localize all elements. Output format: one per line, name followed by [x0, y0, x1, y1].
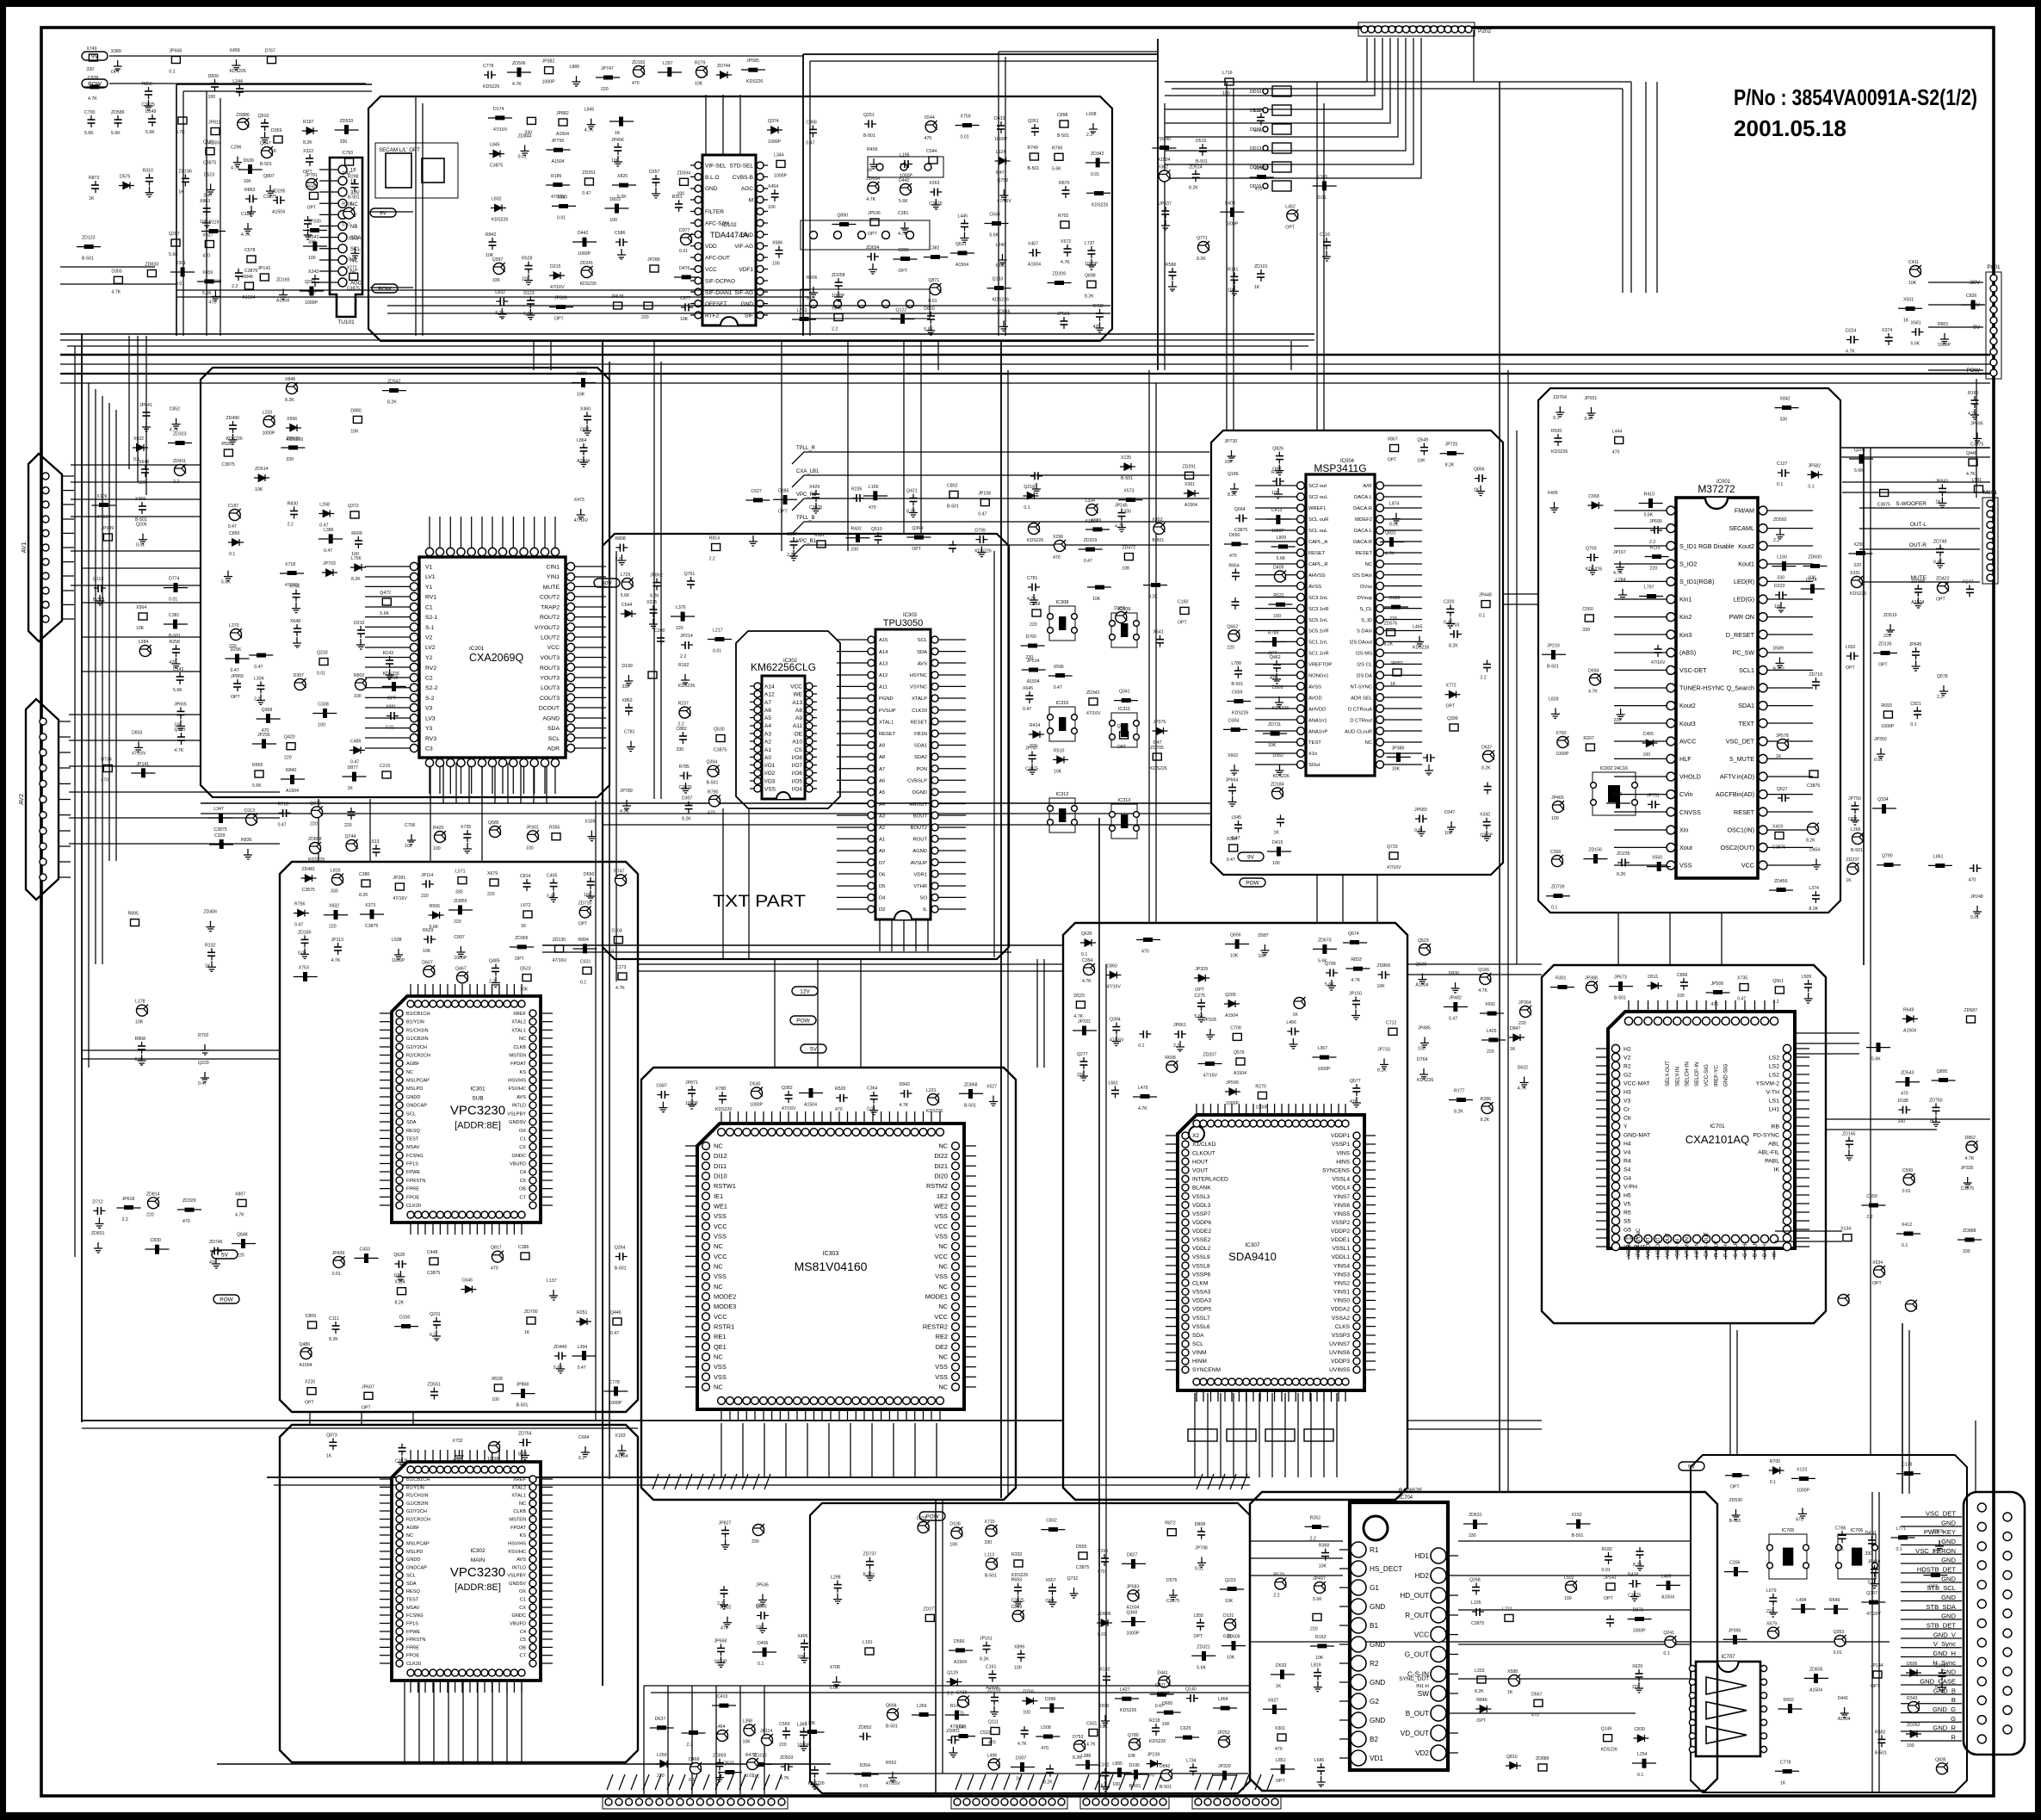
- svg-text:SYNCENM: SYNCENM: [1192, 1367, 1221, 1373]
- wire: [542, 951, 1011, 953]
- svg-text:AHVDD: AHVDD: [1308, 707, 1326, 712]
- wire: [82, 1427, 638, 1429]
- svg-text:D149: D149: [145, 109, 157, 115]
- svg-text:VSSA3: VSSA3: [1192, 1290, 1211, 1296]
- svg-text:Q205: Q205: [136, 523, 147, 528]
- svg-text:HP-IN: HP-IN: [1694, 1242, 1700, 1257]
- svg-text:Xout: Xout: [1679, 844, 1692, 851]
- svg-text:R160: R160: [1968, 391, 1979, 396]
- svg-text:FPRE: FPRE: [406, 1187, 419, 1192]
- svg-text:FPRSTN: FPRSTN: [406, 1179, 425, 1184]
- connector P801: [1986, 264, 2001, 379]
- svg-text:C3875: C3875: [263, 195, 276, 200]
- wire: [667, 1686, 669, 1794]
- svg-text:Xin: Xin: [1679, 826, 1688, 833]
- svg-text:JP141: JP141: [136, 762, 149, 767]
- svg-text:JP536: JP536: [868, 211, 881, 216]
- svg-text:CLKB: CLKB: [513, 1509, 526, 1514]
- svg-text:X419: X419: [1772, 825, 1783, 830]
- net tag 12V: [792, 987, 818, 995]
- svg-text:1000P: 1000P: [768, 139, 782, 145]
- svg-text:XREF: XREF: [513, 1477, 527, 1483]
- svg-text:SYNC_OUT: SYNC_OUT: [1399, 1676, 1429, 1682]
- svg-text:NC: NC: [938, 1303, 948, 1310]
- svg-text:L386: L386: [324, 528, 334, 533]
- wire: [722, 808, 724, 959]
- wire drops VPC3230 main to headers: [405, 1681, 522, 1764]
- wire: [609, 362, 610, 1479]
- svg-text:Q420: Q420: [284, 735, 295, 740]
- svg-text:JP456: JP456: [611, 138, 624, 143]
- svg-text:D7: D7: [879, 861, 885, 866]
- svg-text:8.2K: 8.2K: [329, 1337, 338, 1342]
- svg-text:D223: D223: [1774, 584, 1785, 589]
- svg-text:I2S CL: I2S CL: [1357, 663, 1372, 668]
- svg-text:C489: C489: [350, 739, 362, 744]
- section box: SDA9410 scan: [1063, 923, 1407, 1500]
- component cluster (R/C/Q/D + labels): [483, 59, 765, 92]
- svg-text:330: 330: [1123, 510, 1131, 515]
- svg-text:KDS226: KDS226: [226, 436, 243, 442]
- svg-text:A4: A4: [764, 723, 771, 729]
- svg-text:DI11: DI11: [714, 1162, 727, 1170]
- svg-text:AVSUP: AVSUP: [911, 861, 927, 866]
- wire: [69, 791, 280, 793]
- svg-text:A1504: A1504: [552, 159, 565, 164]
- net tag POW: [82, 79, 108, 88]
- connector pin header: [1080, 1795, 1169, 1809]
- svg-text:GND: GND: [1370, 1603, 1385, 1611]
- svg-text:KDS226: KDS226: [1092, 202, 1108, 207]
- svg-text:L756: L756: [351, 556, 362, 561]
- svg-text:C380: C380: [359, 872, 370, 877]
- svg-text:C368: C368: [806, 120, 817, 125]
- component cluster (R/C/Q/D + labels): [302, 119, 360, 295]
- svg-text:NC: NC: [714, 1263, 723, 1271]
- svg-text:JP747: JP747: [1025, 746, 1038, 751]
- svg-text:L845: L845: [490, 143, 500, 148]
- svg-text:L233: L233: [263, 411, 273, 416]
- svg-text:X2: X2: [1192, 1133, 1199, 1139]
- svg-text:8.2K: 8.2K: [303, 140, 312, 145]
- connector pin header: [951, 1795, 1067, 1809]
- svg-text:ZD319: ZD319: [1084, 538, 1098, 543]
- svg-text:L270: L270: [229, 623, 239, 628]
- svg-text:KDS226: KDS226: [1850, 591, 1866, 597]
- svg-text:CLKOUT: CLKOUT: [1192, 1150, 1215, 1156]
- svg-text:ZD739: ZD739: [1551, 885, 1565, 890]
- svg-text:12V: 12V: [800, 989, 810, 995]
- svg-text:0.01: 0.01: [557, 215, 566, 220]
- svg-text:YINS0: YINS0: [1333, 1298, 1350, 1304]
- svg-text:X602: X602: [1228, 753, 1238, 758]
- wire: [1870, 448, 1871, 1455]
- wire: [691, 1686, 693, 1794]
- svg-text:H4: H4: [1624, 1141, 1631, 1147]
- component cluster (R/C/Q/D + labels): [221, 377, 406, 794]
- svg-text:10K: 10K: [393, 1273, 402, 1278]
- svg-text:5.6K: 5.6K: [252, 783, 262, 789]
- svg-text:1000P: 1000P: [832, 294, 845, 299]
- svg-text:1E2: 1E2: [937, 1192, 948, 1200]
- svg-text:10K: 10K: [136, 626, 145, 631]
- svg-text:0.01: 0.01: [961, 135, 969, 140]
- svg-text:JP862: JP862: [650, 573, 663, 579]
- svg-text:ZD235: ZD235: [1617, 851, 1630, 857]
- svg-text:FPOE: FPOE: [406, 1654, 419, 1659]
- svg-text:C3875: C3875: [1772, 845, 1785, 851]
- svg-text:470: 470: [1093, 325, 1101, 330]
- svg-text:TRAP2: TRAP2: [541, 604, 560, 610]
- svg-text:OPT: OPT: [1388, 458, 1397, 463]
- svg-text:CT: CT: [520, 1195, 527, 1200]
- wire: [1863, 448, 1865, 965]
- svg-text:5.6K: 5.6K: [169, 252, 178, 257]
- svg-text:GND: GND: [1370, 1717, 1385, 1724]
- svg-text:0.1: 0.1: [1808, 484, 1814, 489]
- svg-text:1K: 1K: [89, 196, 95, 201]
- svg-text:470: 470: [1229, 554, 1237, 559]
- svg-text:JP882: JP882: [556, 111, 569, 116]
- svg-text:AFTV.in(AD): AFTV.in(AD): [1720, 773, 1754, 781]
- svg-text:OPT: OPT: [580, 428, 590, 433]
- svg-text:LS2: LS2: [1769, 1072, 1779, 1078]
- wire: [1342, 875, 1344, 923]
- svg-text:A6: A6: [879, 779, 885, 784]
- svg-text:LED(R): LED(R): [1734, 578, 1754, 585]
- svg-text:D123: D123: [523, 291, 535, 296]
- svg-text:X263: X263: [929, 181, 939, 186]
- svg-text:SCL: SCL: [350, 247, 361, 252]
- svg-text:8.2K: 8.2K: [387, 400, 397, 405]
- svg-text:220: 220: [1614, 718, 1622, 723]
- svg-text:0.1: 0.1: [169, 70, 175, 75]
- svg-text:8.2K: 8.2K: [1384, 642, 1394, 647]
- net tag 9V: [370, 208, 396, 217]
- svg-text:R206: R206: [807, 275, 818, 281]
- svg-text:4.7K: 4.7K: [1027, 597, 1036, 602]
- svg-text:A1504: A1504: [804, 1103, 817, 1108]
- svg-text:ADR SEL: ADR SEL: [1351, 696, 1373, 701]
- svg-text:Q374: Q374: [768, 119, 779, 124]
- svg-text:LS2: LS2: [1769, 1063, 1779, 1069]
- svg-text:S-1: S-1: [425, 625, 435, 631]
- svg-text:VDDL1: VDDL1: [1332, 1254, 1351, 1260]
- svg-text:NC: NC: [406, 1533, 413, 1538]
- svg-text:470: 470: [708, 810, 715, 815]
- svg-text:A0: A0: [879, 849, 885, 854]
- svg-text:KDS226: KDS226: [1273, 774, 1290, 779]
- svg-text:C338: C338: [318, 703, 329, 708]
- wire: [69, 714, 201, 715]
- svg-text:Q807: Q807: [263, 174, 275, 179]
- svg-text:I2S MS: I2S MS: [1356, 652, 1372, 657]
- wire: [1842, 481, 1990, 483]
- svg-text:Q122: Q122: [896, 308, 907, 313]
- component cluster (R/C/Q/D + labels): [486, 107, 698, 322]
- svg-text:470: 470: [491, 1266, 498, 1272]
- svg-text:A1504: A1504: [1911, 600, 1924, 605]
- svg-text:VTHR: VTHR: [913, 884, 927, 889]
- svg-text:X749: X749: [86, 46, 96, 52]
- svg-text:G2: G2: [1370, 1698, 1379, 1705]
- wire: [145, 336, 147, 495]
- svg-text:VCC: VCC: [705, 267, 717, 273]
- svg-text:D589: D589: [1773, 646, 1784, 651]
- svg-text:Q399: Q399: [1447, 716, 1458, 721]
- svg-text:HROUT: HROUT: [909, 802, 927, 808]
- svg-text:ZD533: ZD533: [340, 119, 354, 124]
- wire: [60, 363, 1990, 365]
- component cluster (R/C/Q/D + labels): [650, 1717, 825, 1789]
- component cluster (R/C/Q/D + labels): [1723, 1459, 1948, 1656]
- svg-text:L376: L376: [676, 605, 686, 610]
- svg-text:Q397: Q397: [492, 257, 504, 263]
- svg-text:0.47: 0.47: [1933, 560, 1942, 566]
- svg-text:FPWE: FPWE: [406, 1630, 420, 1635]
- svg-text:HDSTB_DET: HDSTB_DET: [1917, 1566, 1957, 1574]
- svg-text:Q631: Q631: [956, 242, 967, 247]
- svg-text:HINS: HINS: [1336, 1159, 1350, 1165]
- svg-text:PON: PON: [916, 767, 927, 772]
- svg-text:ZD422: ZD422: [1936, 577, 1950, 582]
- svg-text:0.47: 0.47: [319, 523, 328, 529]
- wire: [1795, 1032, 1859, 1034]
- svg-text:Q523: Q523: [520, 967, 531, 972]
- svg-text:1F: 1F: [350, 169, 356, 174]
- wire: [1775, 1230, 1842, 1232]
- wire: [274, 1484, 1250, 1486]
- svg-text:B1/Y1IN: B1/Y1IN: [406, 1485, 424, 1490]
- svg-text:HD2: HD2: [1415, 1572, 1430, 1580]
- svg-text:0.47: 0.47: [996, 170, 1005, 176]
- svg-text:C1: C1: [425, 604, 433, 610]
- svg-text:IC302: IC302: [470, 1548, 486, 1554]
- wire: [1036, 959, 1038, 1068]
- svg-text:220: 220: [421, 894, 429, 899]
- svg-text:ZD718: ZD718: [1809, 672, 1823, 678]
- wire: [415, 96, 417, 336]
- svg-text:C3875: C3875: [142, 102, 155, 108]
- svg-text:10K: 10K: [492, 278, 501, 283]
- svg-text:VSLPBY: VSLPBY: [507, 1574, 526, 1579]
- svg-text:NC: NC: [519, 1037, 526, 1042]
- svg-text:VIF-SEL: VIF-SEL: [705, 164, 727, 170]
- svg-text:STB_SDA: STB_SDA: [1926, 1603, 1957, 1611]
- svg-text:Q446: Q446: [610, 1310, 622, 1315]
- svg-text:220: 220: [1227, 645, 1234, 650]
- svg-text:AV1: AV1: [22, 542, 28, 554]
- svg-text:B-501: B-501: [615, 1266, 627, 1272]
- svg-text:A3: A3: [764, 731, 771, 737]
- svg-text:ANA1n1: ANA1n1: [1308, 718, 1327, 723]
- svg-text:S2-1: S2-1: [425, 615, 438, 621]
- svg-text:220: 220: [1389, 616, 1397, 622]
- svg-text:VCC: VCC: [934, 1253, 948, 1260]
- svg-text:Q472: Q472: [380, 591, 391, 596]
- svg-text:JP595: JP595: [1970, 421, 1983, 426]
- svg-text:0.01: 0.01: [136, 543, 145, 548]
- svg-text:AGND: AGND: [542, 715, 560, 721]
- svg-text:VSS: VSS: [1679, 862, 1692, 870]
- svg-text:Q186: Q186: [1228, 472, 1239, 477]
- svg-text:CVBSLP: CVBSLP: [907, 779, 927, 784]
- wire: [809, 61, 811, 336]
- svg-text:ZD716: ZD716: [578, 901, 592, 907]
- wire: [387, 305, 1110, 306]
- component cluster (R/C/Q/D + labels): [1152, 71, 1336, 295]
- svg-text:G1/CB2IN: G1/CB2IN: [406, 1037, 429, 1042]
- svg-text:MSP3411G: MSP3411G: [1314, 462, 1366, 474]
- svg-text:2.2: 2.2: [1773, 538, 1779, 543]
- svg-text:2.2: 2.2: [173, 480, 179, 485]
- wire: [1840, 447, 1990, 449]
- svg-text:A6: A6: [764, 708, 771, 714]
- svg-text:SELY-OUT: SELY-OUT: [1665, 1061, 1671, 1086]
- svg-text:OPT: OPT: [1178, 620, 1187, 625]
- svg-text:DACA.R: DACA.R: [1353, 540, 1372, 545]
- svg-text:ZD351: ZD351: [582, 170, 596, 176]
- svg-text:R629: R629: [423, 928, 434, 933]
- svg-text:POW: POW: [220, 1297, 233, 1303]
- net tag 9V: [82, 52, 108, 60]
- svg-text:RSTW1: RSTW1: [714, 1182, 736, 1190]
- svg-text:D104: D104: [611, 929, 622, 934]
- svg-text:C205: C205: [898, 248, 909, 253]
- svg-text:C3875: C3875: [490, 164, 503, 169]
- svg-text:FPDAT: FPDAT: [510, 1062, 527, 1067]
- svg-text:L815: L815: [331, 869, 341, 874]
- svg-text:Q831: Q831: [1385, 531, 1396, 536]
- svg-text:0.47: 0.47: [231, 668, 239, 673]
- component cluster (R/C/Q/D + labels): [1223, 439, 1296, 866]
- svg-text:D442: D442: [578, 231, 589, 236]
- IC IC201 CXA2069Q: [365, 517, 606, 794]
- svg-text:R237: R237: [678, 702, 690, 707]
- svg-text:VPC3230: VPC3230: [450, 1104, 505, 1118]
- svg-text:30V: 30V: [602, 581, 612, 587]
- svg-text:L334: L334: [1085, 498, 1096, 504]
- svg-text:A9: A9: [795, 715, 802, 721]
- svg-text:SCL: SCL: [918, 638, 928, 643]
- svg-text:IK: IK: [1772, 1251, 1778, 1257]
- svg-text:IC303: IC303: [903, 613, 918, 618]
- svg-text:PABL: PABL: [1765, 1158, 1779, 1164]
- svg-text:D767: D767: [265, 49, 276, 54]
- wire: [481, 799, 483, 862]
- component cluster (R/C/Q/D + labels): [91, 403, 192, 783]
- svg-text:OPT: OPT: [1117, 745, 1127, 750]
- svg-text:OPT: OPT: [868, 232, 877, 237]
- wire: [60, 266, 155, 268]
- svg-text:ZD323: ZD323: [173, 432, 187, 437]
- component cluster (R/C/Q/D + labels): [128, 910, 218, 1086]
- svg-text:XTAL2: XTAL2: [511, 1020, 526, 1025]
- section box: rgb drive: [810, 1503, 1250, 1793]
- svg-text:47/16V: 47/16V: [393, 896, 407, 901]
- svg-text:L828: L828: [1549, 696, 1559, 702]
- svg-text:R409: R409: [867, 147, 878, 152]
- svg-text:1000P: 1000P: [1938, 343, 1951, 348]
- svg-text:VD1: VD1: [1370, 1755, 1383, 1762]
- svg-text:47/16V: 47/16V: [96, 515, 111, 520]
- svg-text:A9: A9: [879, 744, 885, 749]
- IC IC302 VPC3230 MAIN: [380, 1450, 553, 1693]
- wire: [1007, 370, 1009, 1496]
- svg-text:HOUT: HOUT: [1192, 1159, 1209, 1165]
- svg-text:100: 100: [851, 548, 859, 553]
- svg-text:0.47: 0.47: [1054, 685, 1062, 690]
- svg-text:D877: D877: [348, 765, 359, 771]
- svg-text:OE: OE: [795, 731, 803, 737]
- component cluster (R/C/Q/D + labels): [1846, 613, 1983, 920]
- svg-text:AV2: AV2: [19, 794, 25, 805]
- svg-text:DI12: DI12: [714, 1152, 727, 1160]
- svg-text:D347: D347: [1444, 810, 1456, 815]
- connector TU101 tuner: [319, 158, 362, 325]
- svg-text:CLK20: CLK20: [406, 1204, 421, 1209]
- svg-text:VCC: VCC: [934, 1223, 948, 1230]
- svg-text:ZD449: ZD449: [554, 1345, 567, 1350]
- svg-text:OX: OX: [519, 1589, 526, 1594]
- svg-text:X309: X309: [577, 372, 587, 377]
- svg-text:GND: GND: [1941, 1538, 1956, 1545]
- svg-text:C658: C658: [1588, 494, 1599, 499]
- svg-text:IC308: IC308: [1056, 600, 1069, 605]
- svg-text:RV3: RV3: [425, 736, 436, 742]
- svg-text:NC: NC: [1365, 740, 1372, 746]
- svg-text:AGND: AGND: [912, 849, 927, 854]
- svg-text:Q372: Q372: [348, 504, 359, 509]
- svg-text:C3875: C3875: [1970, 442, 1983, 447]
- svg-text:KDS226: KDS226: [1150, 766, 1166, 771]
- wire: [1458, 1712, 1636, 1714]
- svg-text:100: 100: [772, 262, 780, 267]
- svg-text:2.2: 2.2: [288, 523, 294, 528]
- svg-text:IL: IL: [923, 907, 928, 913]
- svg-text:SOut: SOut: [1308, 763, 1320, 768]
- svg-text:C215: C215: [380, 764, 391, 769]
- svg-text:NB: NB: [350, 225, 357, 230]
- wire: [82, 636, 201, 638]
- svg-text:330: 330: [622, 684, 629, 690]
- svg-text:SO: SO: [920, 896, 928, 901]
- svg-text:2.2: 2.2: [680, 654, 686, 659]
- svg-text:VCC: VCC: [934, 1313, 948, 1321]
- svg-text:TEXT: TEXT: [1739, 720, 1755, 727]
- svg-text:L571: L571: [455, 870, 466, 875]
- svg-text:ZD241: ZD241: [580, 261, 594, 266]
- svg-text:L284: L284: [1616, 578, 1626, 583]
- svg-text:SDA1: SDA1: [914, 744, 927, 749]
- wire: [1795, 1043, 1859, 1044]
- svg-text:R1: R1: [1370, 1546, 1379, 1554]
- svg-text:DGND: DGND: [912, 790, 927, 795]
- svg-text:D454: D454: [1809, 848, 1821, 853]
- svg-text:VDDL2: VDDL2: [1192, 1246, 1211, 1252]
- svg-text:S-2: S-2: [425, 696, 435, 702]
- svg-text:CT: CT: [520, 1654, 527, 1659]
- svg-text:B-501: B-501: [1773, 666, 1785, 672]
- svg-text:0.1: 0.1: [580, 980, 586, 985]
- svg-text:VSSP3: VSSP3: [1332, 1333, 1351, 1339]
- svg-text:Cb: Cb: [1624, 1115, 1631, 1121]
- svg-text:IC201: IC201: [469, 646, 485, 652]
- svg-text:CVBS-B: CVBS-B: [733, 175, 753, 181]
- svg-text:IC302: IC302: [783, 659, 798, 664]
- svg-text:1K: 1K: [524, 1330, 530, 1335]
- svg-text:KDS226: KDS226: [492, 218, 508, 223]
